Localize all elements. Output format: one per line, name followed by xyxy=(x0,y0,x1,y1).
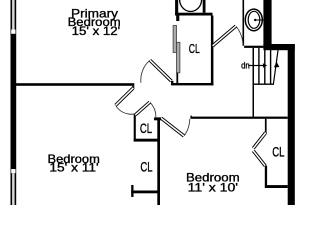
jog thick wall xyxy=(263,44,294,50)
sliding door panel 2 xyxy=(177,42,180,73)
closet top tick xyxy=(154,117,161,120)
east exterior thick wall xyxy=(288,44,295,205)
door primary bedroom leaf xyxy=(150,60,171,81)
closet slider jamb stub xyxy=(176,16,179,22)
wall A bedroom15x11 north xyxy=(11,83,135,86)
svg-text:dn: dn xyxy=(241,60,250,70)
jamb wall B west end xyxy=(171,81,173,83)
bathroom west wall xyxy=(211,16,214,86)
closet A west wall xyxy=(134,114,136,142)
closet east wall xyxy=(157,117,160,205)
label bedroom 11x10 xyxy=(186,171,240,195)
tub room south wall xyxy=(175,13,212,16)
door bathroom arc xyxy=(236,26,243,45)
WC west wall xyxy=(243,0,245,46)
hall south wall xyxy=(190,117,287,119)
door closet A arc xyxy=(150,102,156,117)
bathroom door jamb xyxy=(213,45,215,47)
door bedroom11x10 arc xyxy=(184,119,190,136)
door closet A leaf xyxy=(135,102,150,115)
closet west wall lower xyxy=(176,73,178,83)
svg-text:15' x 12': 15' x 12' xyxy=(72,24,121,38)
northeast thick wall xyxy=(263,0,271,48)
east closet bifold door xyxy=(253,133,265,166)
stair break line xyxy=(273,48,278,84)
wall B hall north xyxy=(171,83,213,85)
sliding door panel 1 xyxy=(173,26,176,53)
east closet door jamb lower xyxy=(265,166,267,186)
door primary bedroom arc xyxy=(141,60,150,83)
tub room east wall xyxy=(203,0,206,13)
door bedroom15x11 leaf xyxy=(116,88,134,106)
window W1 top-left xyxy=(12,0,15,30)
svg-text:CL: CL xyxy=(140,121,153,136)
toilet xyxy=(245,9,263,31)
dn arrow xyxy=(248,63,267,68)
window W2 bottom-left xyxy=(11,169,15,173)
tub room west wall xyxy=(175,0,178,16)
closet B south wall xyxy=(131,191,160,194)
label primary bedroom xyxy=(68,7,121,38)
east closet door jamb upper xyxy=(265,119,267,133)
svg-text:CL: CL xyxy=(272,145,285,160)
jamb closet B south west cap xyxy=(131,185,133,197)
svg-text:15' x 11': 15' x 11' xyxy=(49,161,98,175)
label bedroom 15x11 xyxy=(47,152,99,175)
west exterior wall xyxy=(11,0,17,205)
stair bottom edge xyxy=(253,83,275,85)
svg-text:CL: CL xyxy=(189,41,200,56)
door bedroom15x11 arc xyxy=(116,105,134,114)
svg-text:11' x 10': 11' x 10' xyxy=(188,181,238,195)
jamb hall south west end xyxy=(190,116,192,117)
door bedroom11x10 leaf xyxy=(161,118,184,136)
stair up arrowhead xyxy=(274,62,280,68)
WC south wall xyxy=(244,46,263,48)
jamb wall A east end xyxy=(132,86,134,89)
bathtub xyxy=(180,0,202,12)
stair treads xyxy=(259,48,271,84)
svg-text:CL: CL xyxy=(140,159,153,174)
stairwell west wall xyxy=(253,48,255,118)
closet A/B divider wall xyxy=(134,139,160,142)
east closet south wall xyxy=(265,185,288,188)
door bathroom leaf xyxy=(213,26,236,46)
